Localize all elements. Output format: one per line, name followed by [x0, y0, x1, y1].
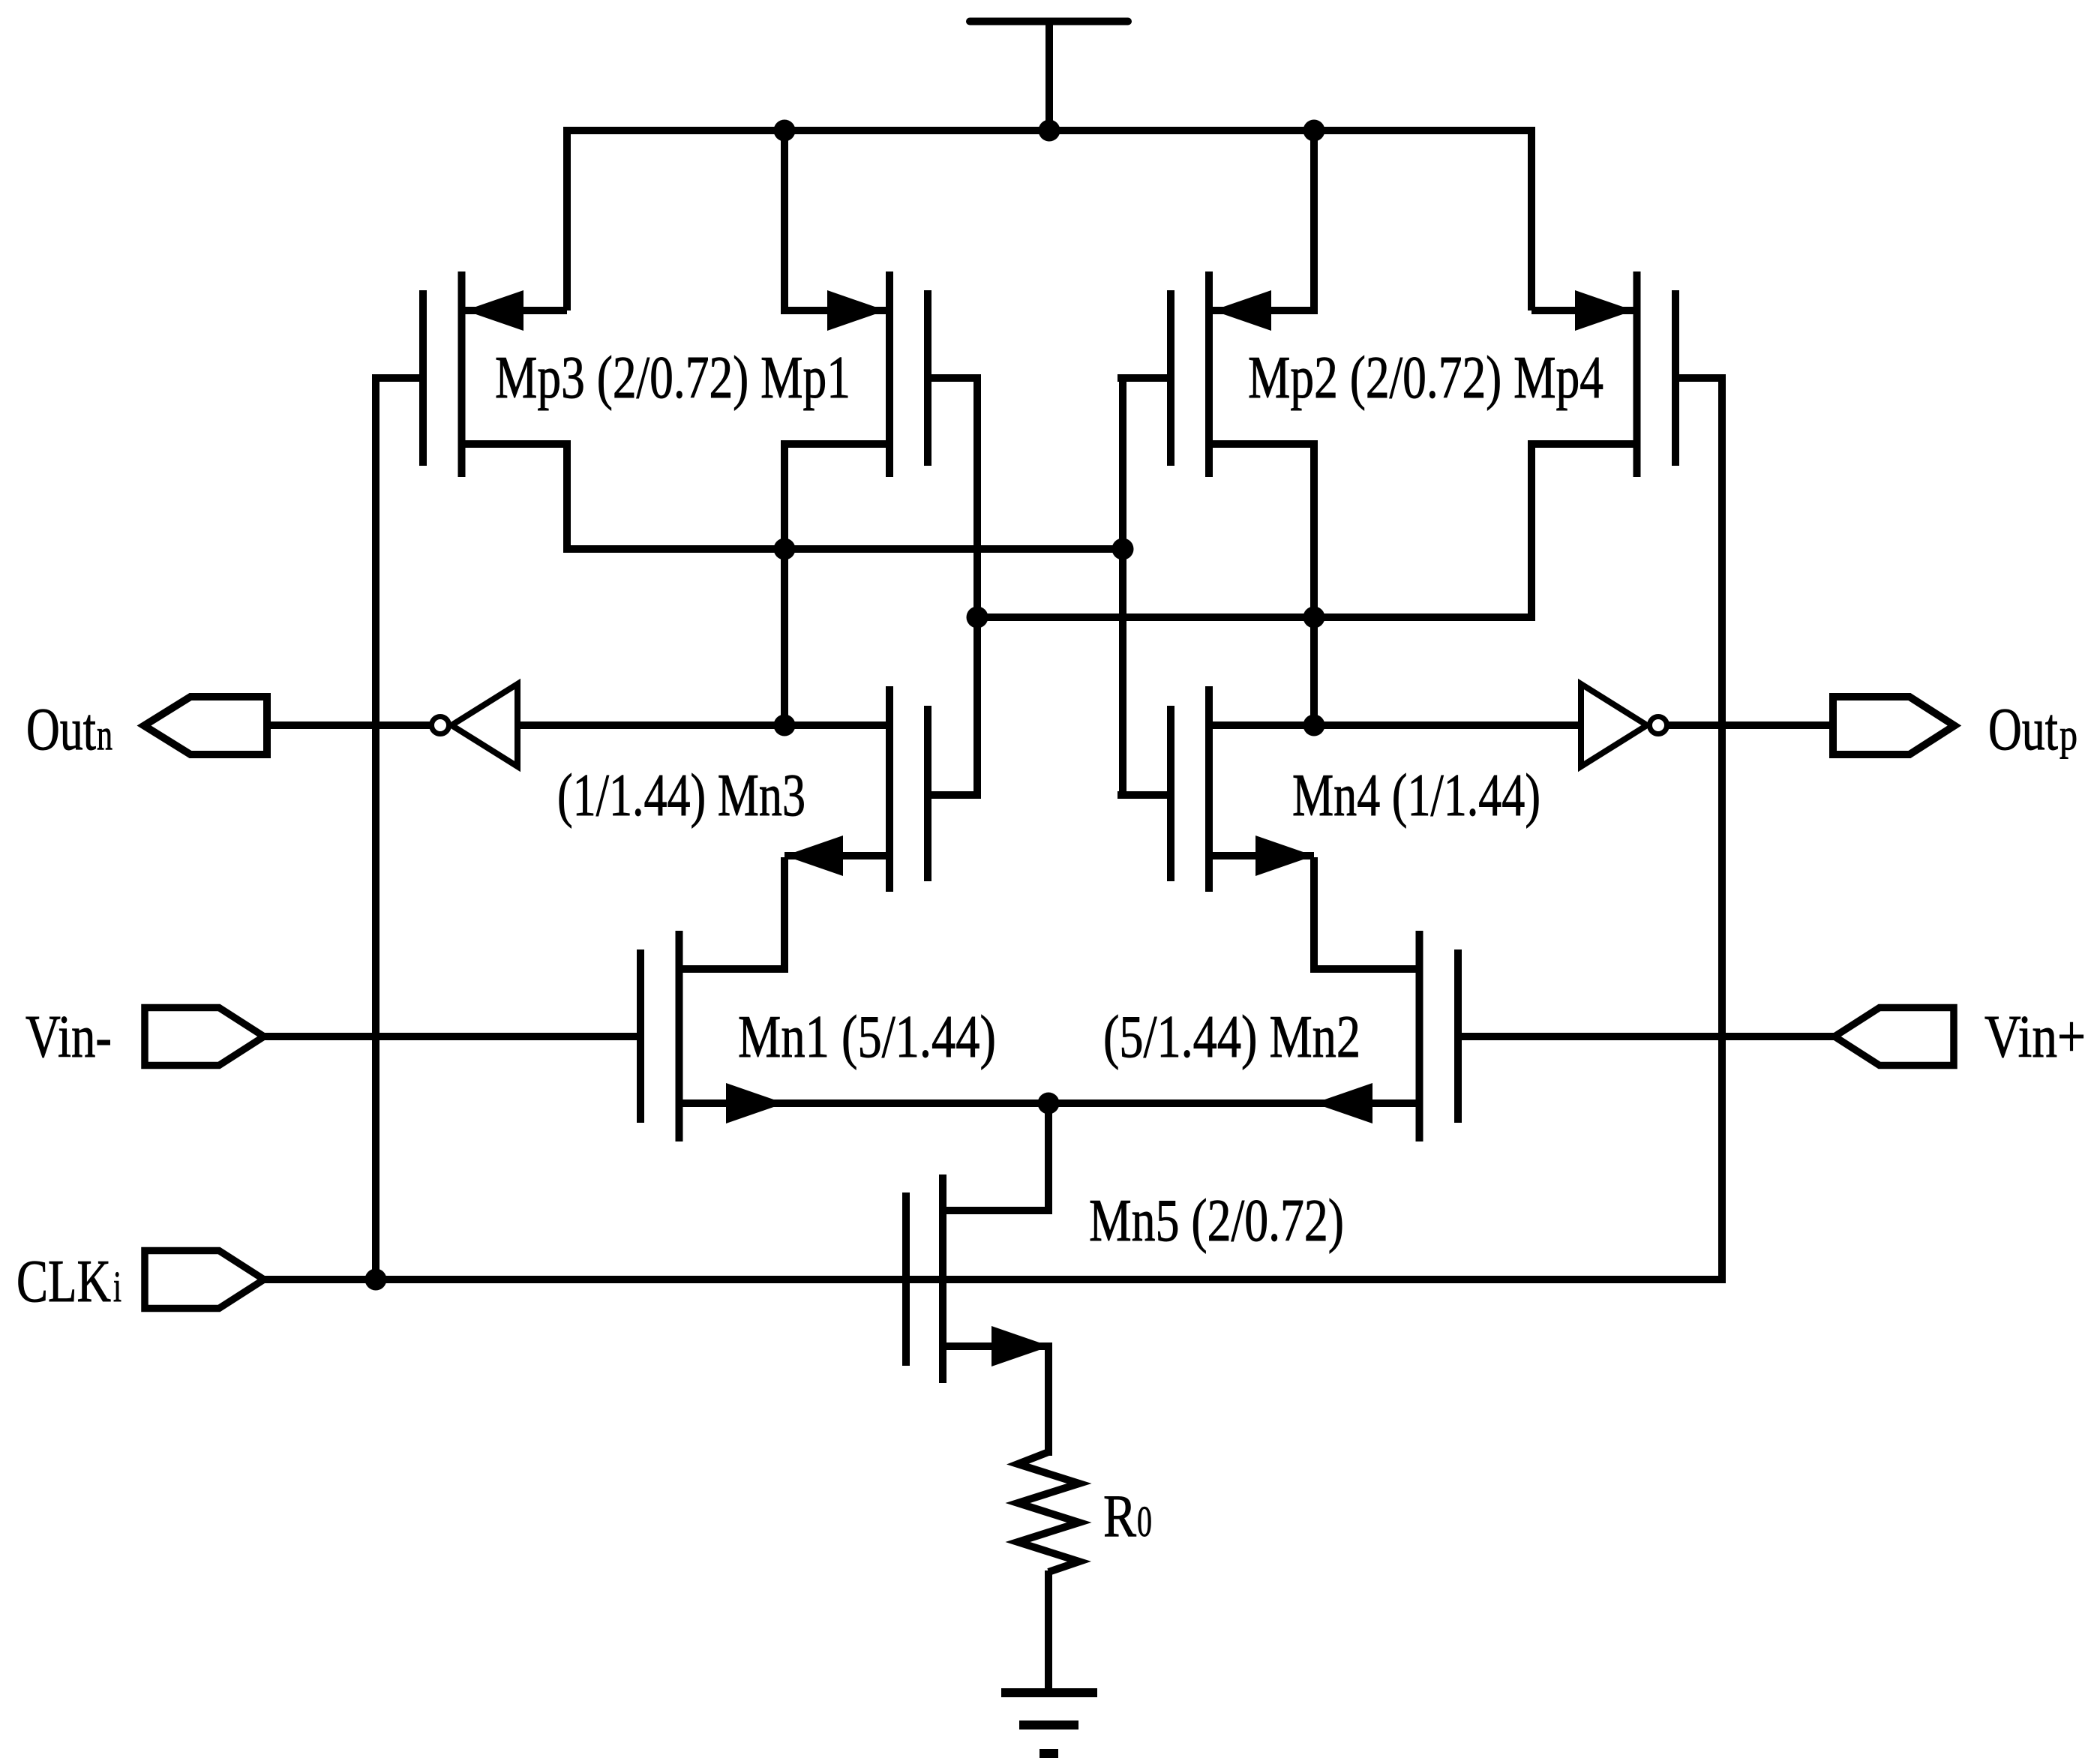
- node VDD-Mp2 junction: [1303, 120, 1325, 142]
- node X - Mn3 drain junction: [774, 715, 796, 736]
- wire resistor to ground: [1045, 1570, 1052, 1693]
- label Outn: [26, 697, 112, 763]
- wire Mp2 source to rail: [1310, 127, 1318, 310]
- wire CLK net Mp3 gate vertical: [372, 374, 379, 1279]
- wire Mn4 source to Mn2 drain: [1310, 857, 1318, 973]
- svg-text:Mp2 (2/0.72) Mp4: Mp2 (2/0.72) Mp4: [1248, 345, 1603, 411]
- svg-text:Vin+: Vin+: [1984, 1004, 2086, 1070]
- wire Vin- net (port to Mn1 gate): [265, 1033, 637, 1040]
- port Vin+: [1834, 1008, 1954, 1066]
- wire node Y cross-coupling (Mp4 drain to Mp1/Mn3 gates): [973, 613, 1535, 621]
- wire Mp4 drain to node Y: [1528, 444, 1535, 621]
- wire node Y vertical (Mp2 drain - Mn4 drain): [1310, 440, 1318, 725]
- label R0: [1103, 1483, 1152, 1549]
- wire Mp1 source to rail: [781, 127, 788, 310]
- node X to Mp2 gate junction: [1112, 538, 1134, 560]
- wire CLK net Mp4 gate vertical: [1718, 374, 1726, 1283]
- wire inverter U2 output to port Outp: [1666, 721, 1834, 729]
- wire Mp1 gate cross-couple vertical: [973, 374, 981, 799]
- wire node X cross-coupling (Mp3 drain to Mp2/Mn4 gates): [563, 545, 1126, 553]
- power supply VDD symbol: [970, 22, 1128, 135]
- port Vin-: [145, 1008, 264, 1066]
- wire VDD rail: [563, 127, 1535, 134]
- node Y to Mp1 gate junction: [967, 607, 988, 628]
- wire CLK net horizontal: [265, 1276, 1726, 1283]
- transistor Mn4: [1117, 686, 1314, 892]
- node VDD-Mp1 junction: [774, 120, 796, 142]
- svg-text:0: 0: [1137, 1497, 1152, 1546]
- wire node X to inverter U1 input (Mn3 drain lead): [517, 721, 886, 729]
- wire Outp net (Mn4 drain to inverter to port): [1213, 721, 1582, 729]
- transistor Mn5: [906, 1174, 1052, 1383]
- transistor Mp1: [781, 271, 981, 477]
- node X junction on vertical: [774, 538, 796, 560]
- svg-text:n: n: [97, 710, 112, 759]
- wire Mp3 source to rail: [563, 127, 571, 310]
- wire Vin+ net (Mn2 gate to port): [1462, 1033, 1834, 1040]
- node Y junction on vertical: [1303, 607, 1325, 628]
- svg-text:Out: Out: [26, 697, 96, 763]
- port Outp: [1833, 697, 1954, 754]
- svg-text:(5/1.44) Mn2: (5/1.44) Mn2: [1103, 1004, 1360, 1070]
- node Y - Mn4 drain junction: [1303, 715, 1325, 736]
- transistor Mp2: [1117, 271, 1318, 477]
- svg-text:Mn5 (2/0.72): Mn5 (2/0.72): [1089, 1188, 1344, 1254]
- svg-text:i: i: [113, 1262, 121, 1311]
- transistor Mn3: [784, 686, 981, 892]
- transistor Mp4: [1528, 271, 1723, 477]
- transistor Mp3: [376, 271, 571, 477]
- transistor Mn1: [640, 931, 788, 1141]
- inverter U1 (drives Outn): [432, 684, 518, 766]
- wire Mp2 gate cross-couple vertical: [1119, 374, 1126, 799]
- wire Mp3 drain to node X: [563, 444, 571, 553]
- node CLK - Mp3 gate junction: [365, 1269, 387, 1291]
- port CLKi: [145, 1251, 264, 1309]
- svg-text:Mn1 (5/1.44): Mn1 (5/1.44): [738, 1004, 996, 1070]
- node VDD-stub junction: [1039, 120, 1060, 142]
- port Outn: [144, 697, 267, 754]
- svg-text:R: R: [1103, 1483, 1137, 1549]
- svg-text:Out: Out: [1988, 697, 2058, 763]
- wire node X vertical (Mp1 drain - Mn3 drain): [781, 440, 788, 725]
- label Outp: [1988, 697, 2077, 763]
- wire Mn5 source to resistor: [1045, 1342, 1052, 1456]
- svg-text:CLK: CLK: [16, 1249, 111, 1315]
- wire tail node to Mn5 drain: [1045, 1103, 1052, 1214]
- node tail junction: [1038, 1093, 1060, 1114]
- label CLKi: [16, 1249, 121, 1315]
- svg-text:Mp3 (2/0.72) Mp1: Mp3 (2/0.72) Mp1: [495, 345, 850, 411]
- inverter U2 (drives Outp): [1581, 684, 1667, 766]
- resistor R0: [1018, 1452, 1079, 1572]
- wire Mp4 source to rail: [1528, 127, 1535, 310]
- svg-text:Vin-: Vin-: [25, 1004, 112, 1070]
- wire Outn net (port to inverter to Mn3 drain): [265, 721, 432, 729]
- svg-text:(1/1.44) Mn3: (1/1.44) Mn3: [557, 763, 805, 829]
- transistor Mn2: [1310, 931, 1458, 1141]
- svg-text:Mn4 (1/1.44): Mn4 (1/1.44): [1292, 763, 1540, 829]
- wire common source node (Mn1 source to Mn2 source): [784, 1099, 1314, 1107]
- svg-text:p: p: [2059, 710, 2077, 759]
- wire Mn3 source to Mn1 drain: [781, 857, 788, 973]
- ground: [1001, 1693, 1097, 1753]
